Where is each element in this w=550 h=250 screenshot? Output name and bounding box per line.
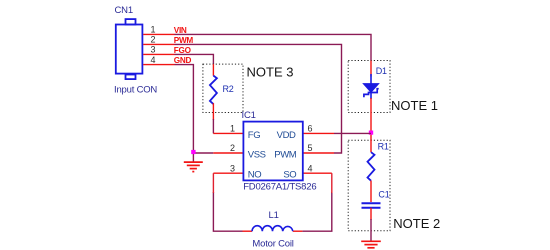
ground symbol right	[361, 241, 381, 248]
capacitor C1	[362, 203, 381, 207]
IC U1 pin 5 wire	[303, 152, 334, 154]
resistor R2 lead bottom	[212, 103, 214, 120]
svg-text:L1: L1	[269, 210, 279, 221]
ground symbol left	[184, 162, 203, 172]
svg-text:NO: NO	[248, 170, 261, 181]
wire GND net	[175, 65, 194, 162]
wire VIN net	[175, 34, 372, 60]
svg-text:CN1: CN1	[115, 5, 133, 16]
svg-text:NOTE 2: NOTE 2	[393, 216, 440, 231]
svg-text:4: 4	[151, 55, 156, 65]
svg-text:GND: GND	[174, 56, 192, 65]
resistor R2 dashed box	[203, 64, 243, 112]
wire C1 to ground	[370, 219, 372, 241]
wire NO to coil (left leg)	[213, 192, 242, 231]
svg-text:PWM: PWM	[174, 36, 194, 45]
svg-text:C1: C1	[378, 189, 389, 199]
diode D1 lead top	[370, 61, 372, 77]
inductor L1 lead right	[293, 230, 303, 232]
svg-text:VSS: VSS	[248, 150, 266, 161]
svg-text:2: 2	[230, 143, 235, 153]
wire VSS to IC	[193, 152, 213, 154]
inductor L1 coil	[252, 226, 293, 232]
IC U1 pin 4 wire	[303, 172, 332, 174]
IC U1 body	[243, 122, 302, 181]
pin 1 stub	[143, 33, 174, 35]
svg-text:NOTE 3: NOTE 3	[247, 64, 294, 79]
junction dot GND/VSS	[191, 150, 195, 154]
wire SO to coil (right leg)	[302, 192, 331, 231]
svg-text:Motor Coil: Motor Coil	[252, 238, 293, 249]
connector CN1	[116, 19, 143, 79]
svg-text:3: 3	[230, 163, 235, 173]
IC U1 pin 2 wire	[213, 152, 243, 154]
IC U1 pin 1 wire	[213, 132, 243, 134]
capacitor C1 lead bottom	[370, 208, 372, 220]
svg-text:Input CON: Input CON	[114, 85, 157, 96]
svg-text:PWM: PWM	[274, 150, 297, 161]
junction dot VDD/VIN	[369, 131, 373, 135]
svg-text:5: 5	[308, 143, 313, 153]
IC U1 pin 6 wire	[303, 132, 334, 134]
wire FGO net	[175, 54, 214, 64]
resistor R2 zigzag	[210, 76, 217, 105]
pin 3 stub	[143, 53, 174, 55]
resistor R1 zigzag	[368, 152, 375, 181]
svg-text:6: 6	[308, 124, 313, 134]
pin 4 stub	[143, 64, 174, 66]
svg-text:2: 2	[151, 35, 156, 45]
svg-text:VIN: VIN	[174, 26, 187, 35]
svg-text:1: 1	[230, 124, 235, 134]
pin 2 stub	[143, 43, 174, 45]
svg-text:IC1: IC1	[242, 110, 256, 121]
svg-text:D1: D1	[376, 66, 387, 76]
svg-text:R2: R2	[223, 84, 234, 94]
resistor R1 lead top	[370, 140, 372, 152]
IC U1 pin 3 wire	[213, 172, 243, 174]
svg-text:1: 1	[151, 25, 156, 35]
svg-text:FD0267A1/TS826: FD0267A1/TS826	[243, 182, 316, 193]
diode D1 dashed box	[348, 61, 390, 113]
resistor R2 lead top	[212, 64, 214, 76]
svg-text:R1: R1	[378, 142, 389, 152]
svg-text:VDD: VDD	[277, 130, 296, 141]
diode D1 lead bottom / wire to junction	[370, 98, 372, 141]
wire VDD junction to pin6	[334, 132, 371, 134]
wire R1 to C1	[370, 181, 372, 202]
wire R2 to FG	[212, 119, 214, 133]
svg-text:FGO: FGO	[174, 46, 192, 55]
svg-text:4: 4	[308, 163, 313, 173]
R1 C1 dashed box	[348, 140, 390, 231]
wire PWM net	[175, 44, 342, 153]
diode D1 symbol	[363, 74, 378, 99]
svg-text:NOTE 1: NOTE 1	[391, 98, 438, 113]
svg-text:FG: FG	[248, 130, 260, 141]
svg-text:3: 3	[151, 45, 156, 55]
inductor L1 lead left	[243, 230, 253, 232]
svg-text:SO: SO	[283, 170, 296, 181]
